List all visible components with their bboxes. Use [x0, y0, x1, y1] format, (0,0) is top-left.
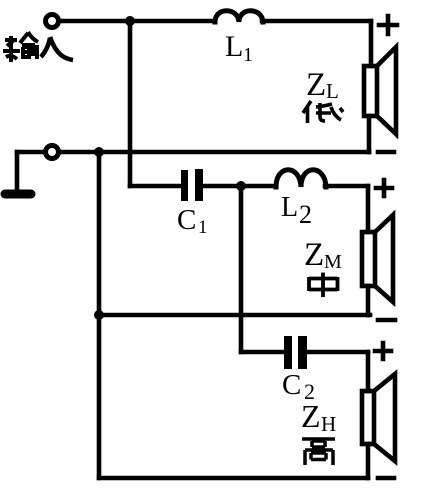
plus sign ZM [376, 180, 392, 196]
inductor L1 [215, 11, 263, 22]
svg-text:Z: Z [304, 237, 324, 273]
junction node C [236, 181, 246, 191]
capacitor C2 [284, 336, 307, 369]
wire ground rail 1 [17, 150, 369, 155]
inductor L2 [276, 170, 326, 187]
wire ZL minus lead [367, 116, 372, 152]
junction node B [94, 147, 104, 157]
minus sign ZL [378, 150, 394, 155]
svg-text:L: L [225, 30, 243, 63]
wire bottom rail [99, 476, 368, 481]
wire ZM plus lead [366, 186, 371, 232]
minus sign ZM [378, 318, 395, 323]
capacitor C1 [181, 169, 203, 201]
wire ZM minus lead [366, 286, 371, 315]
svg-text:2: 2 [299, 200, 312, 229]
wire top from input to L1 [59, 19, 214, 24]
label L2 [281, 192, 312, 229]
svg-text:H: H [321, 412, 336, 436]
wire C1 to node C [203, 184, 241, 189]
label 高 [302, 439, 335, 465]
wire to C2 [241, 350, 283, 355]
wire ZH minus lead [366, 444, 371, 478]
speaker ZM [362, 215, 393, 302]
label L1 [225, 30, 253, 66]
wire ZL plus lead [369, 21, 374, 66]
speaker ZH [362, 374, 395, 461]
wire ground rail 2 [99, 313, 370, 318]
wire node C to L2 [241, 184, 276, 189]
wire to C1 [130, 184, 181, 189]
label C1 [177, 204, 208, 238]
label ZH [301, 398, 336, 436]
ground [5, 190, 31, 199]
plus sign ZL [379, 16, 397, 34]
label C2 [282, 369, 315, 404]
input terminal bottom (-) [46, 146, 59, 159]
junction node D [94, 310, 104, 320]
label 低 [303, 101, 343, 123]
input label 输入 [3, 32, 73, 62]
label ZL [306, 67, 339, 103]
svg-text:L: L [281, 192, 298, 223]
junction node A (top) [125, 16, 135, 26]
plus sign ZH [375, 343, 391, 359]
wire ZH plus lead [366, 352, 371, 391]
svg-text:C: C [282, 369, 301, 401]
svg-text:Z: Z [301, 398, 321, 434]
svg-text:M: M [324, 251, 342, 273]
label ZM [304, 237, 342, 273]
wire L2 to ZM plus corner [325, 184, 368, 189]
wire vertical from node A to C1 branch [128, 21, 133, 186]
input terminal top (+) [46, 15, 59, 28]
speaker ZL [364, 47, 396, 134]
svg-text:C: C [177, 204, 196, 236]
svg-text:1: 1 [243, 44, 253, 66]
wire left vertical rail [97, 152, 102, 478]
svg-text:Z: Z [306, 67, 326, 103]
svg-text:L: L [326, 79, 339, 103]
minus sign ZH [378, 476, 394, 481]
wire L1 to ZL plus corner [262, 19, 371, 24]
wire ground drop [15, 152, 20, 188]
wire C2 to ZH plus corner [306, 350, 368, 355]
label 中 [309, 273, 338, 298]
wire node C down to C2 branch [239, 186, 244, 352]
svg-text:1: 1 [198, 217, 208, 238]
